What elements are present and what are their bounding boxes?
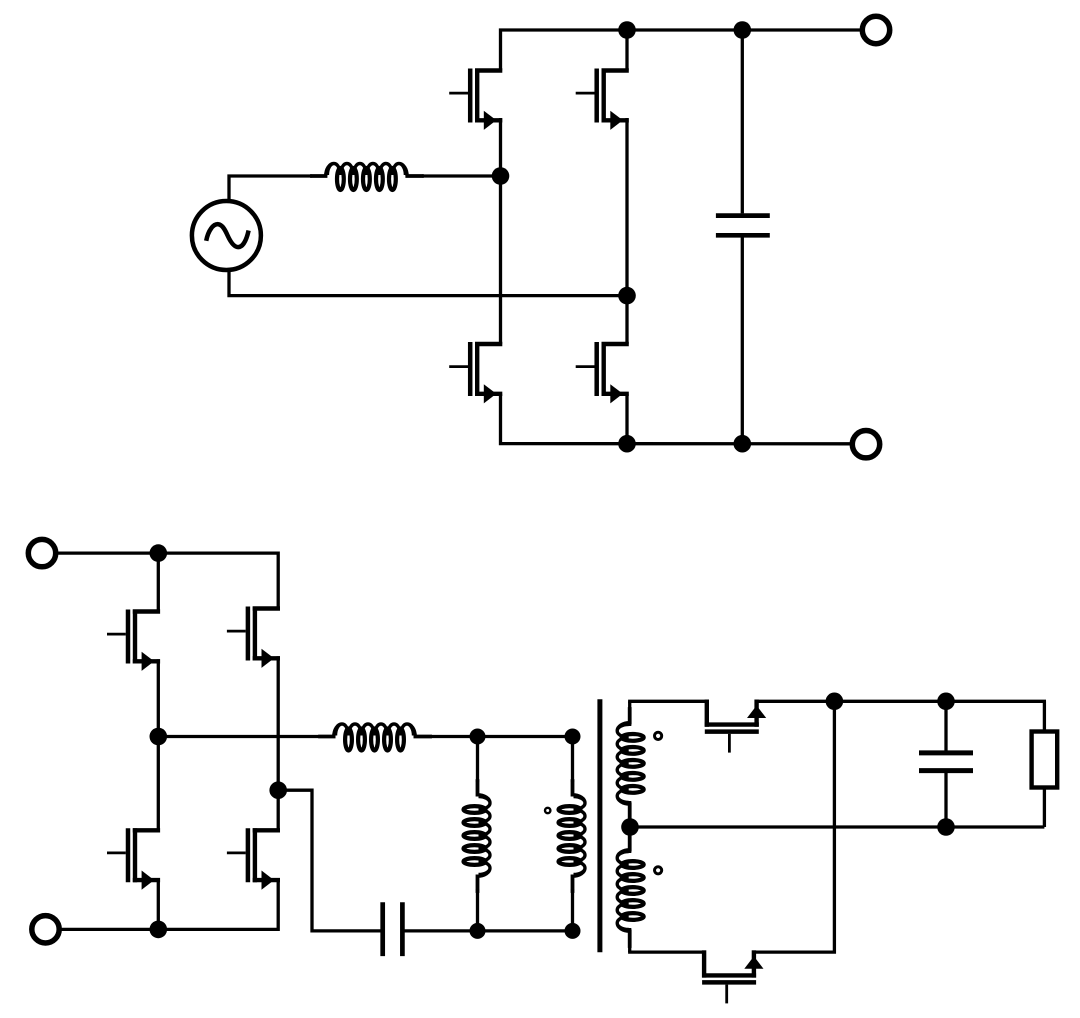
capacitor C2 <box>383 902 403 956</box>
terminal bottom output <box>852 431 879 458</box>
node E dot (L2/L3 top) <box>470 729 486 745</box>
inductor L3 parallel <box>464 737 491 931</box>
wire top rail <box>501 30 862 71</box>
terminal input top <box>28 539 55 566</box>
wire load branch top <box>1043 701 1046 733</box>
resistor R1 load <box>1032 732 1058 788</box>
node dot primary top <box>565 729 581 745</box>
transistor Q10 sync rectifier bottom <box>702 950 763 1003</box>
node F dot (C2/L3 bottom) <box>470 923 486 939</box>
wire L1 to node A <box>422 174 501 177</box>
wire Q1 source to Q3 drain <box>499 118 502 344</box>
node dot input top rail <box>150 544 168 562</box>
ac source V1 <box>192 201 261 270</box>
terminal input bottom <box>32 916 59 943</box>
wire node C to L2 <box>158 735 318 738</box>
wire node D branch to C2 <box>278 790 380 931</box>
transformer secondary winding S1 <box>617 701 644 827</box>
wire Q3 source to bottom rail <box>501 394 852 444</box>
terminal top output <box>862 16 889 43</box>
wire capacitor C3 top lead <box>944 701 947 750</box>
transistor Q2 <box>576 69 629 130</box>
wire Q2 drain <box>625 28 628 71</box>
transformer primary winding P1 <box>559 737 586 931</box>
wire input top rail <box>56 553 278 608</box>
wire Q7 source <box>157 880 160 931</box>
inductor L2 series <box>318 724 432 751</box>
wire capacitor C3 bottom lead <box>944 773 947 827</box>
node dot bottom rail C1 <box>734 435 752 453</box>
wire Q5 drain <box>157 551 160 612</box>
wire Q2 source to Q4 drain <box>625 118 628 344</box>
wire top rectifier row <box>628 700 708 703</box>
wire capacitor C1 top branch <box>741 30 744 213</box>
node C dot (left leg midpoint) <box>150 728 168 746</box>
node dot C3 top <box>937 693 955 711</box>
node dot input bottom rail <box>150 921 168 939</box>
node dot top rail Q2 <box>618 21 636 39</box>
node dot primary bottom <box>565 923 581 939</box>
transistor Q3 <box>449 342 502 403</box>
node D dot (right leg midpoint) <box>269 781 287 799</box>
capacitor C3 <box>919 753 973 771</box>
node dot top rail C1 <box>734 21 752 39</box>
inductor L1 <box>310 164 424 191</box>
wire C2 to node F <box>405 929 573 932</box>
polarity dot secondary S1 <box>655 732 662 739</box>
wire capacitor C1 bottom branch <box>741 238 744 444</box>
wire center tap rail <box>630 825 1044 828</box>
transistor Q7 <box>107 828 160 889</box>
polarity dot secondary S2 <box>655 867 662 874</box>
node dot center tap <box>621 818 639 836</box>
node dot bottom rail Q4 <box>618 435 636 453</box>
wire Q10 source to vertical return <box>752 701 834 952</box>
transistor Q5 <box>107 610 160 671</box>
wire load branch bottom <box>1043 788 1046 828</box>
wire Q9 source to output rail <box>755 700 1046 703</box>
wire bottom rectifier row <box>628 950 705 953</box>
wire Q4 source <box>625 394 628 445</box>
transistor Q1 <box>449 69 502 130</box>
capacitor C1 <box>716 216 770 236</box>
polarity dot primary <box>545 808 550 813</box>
wire L2 to node E <box>431 735 573 738</box>
node A dot (L1 / Q1-Q3) <box>492 167 510 185</box>
wire V1 bottom lead <box>229 269 627 296</box>
node dot C3 bottom <box>937 818 955 836</box>
transistor Q4 <box>576 342 629 403</box>
wire V1 top lead <box>229 176 312 203</box>
transformer core <box>597 699 602 952</box>
transistor Q6 <box>227 607 280 668</box>
transistor Q8 <box>227 828 280 889</box>
wire Q6 source to Q8 drain <box>277 656 280 830</box>
node B dot (V1- / Q2-Q4) <box>618 287 636 305</box>
wire input bottom rail <box>60 880 278 929</box>
wire Q5 source to Q7 drain <box>157 659 160 830</box>
transistor Q9 sync rectifier top <box>705 700 766 753</box>
transformer secondary winding S2 <box>617 827 644 952</box>
node dot rectifier output <box>826 693 844 711</box>
